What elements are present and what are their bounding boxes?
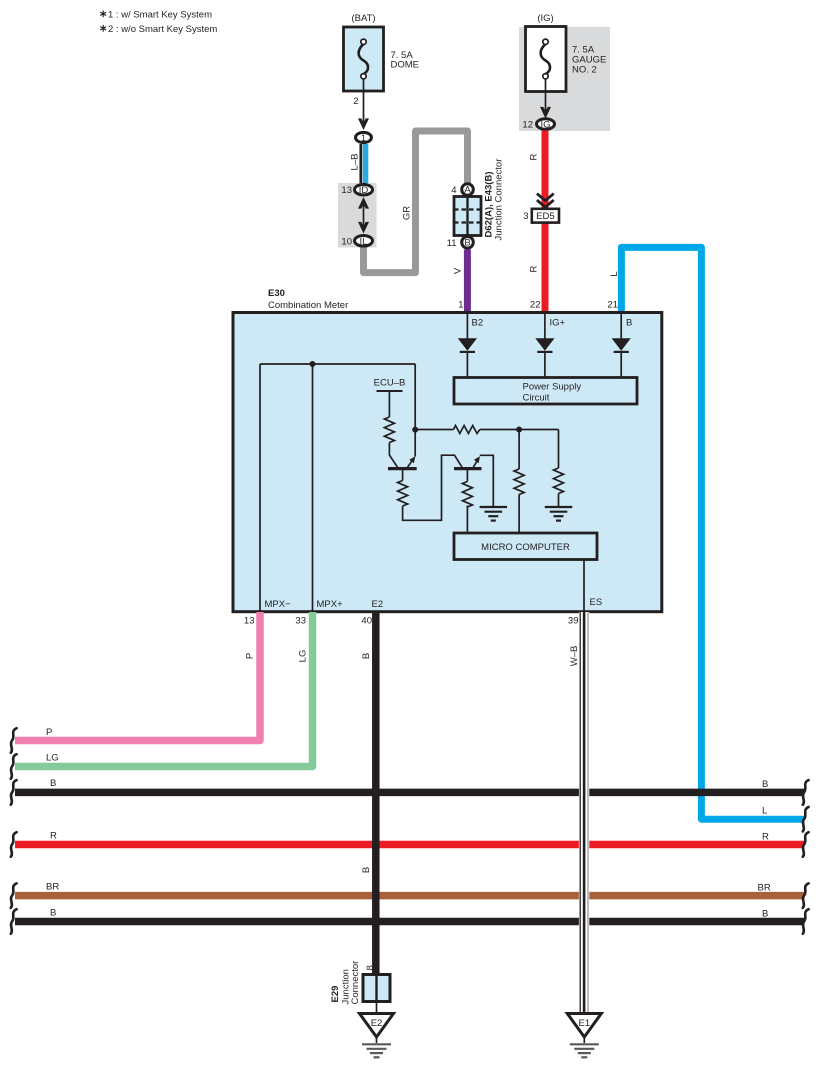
fuse GAUGE NO.2 (IG) background (519, 27, 610, 131)
svg-text:B2: B2 (472, 318, 484, 329)
wire BR horizontal (15, 882, 804, 896)
svg-text:(IG): (IG) (537, 13, 553, 24)
pin B lead (621, 314, 632, 339)
svg-text:E2: E2 (372, 599, 384, 610)
splice ED5 (523, 209, 559, 223)
wire R (red) to pin 22 (529, 131, 546, 315)
wire V (violet) to pin 1 (453, 250, 468, 315)
wire P (pink) (15, 612, 260, 741)
wire terminator right B2 (803, 909, 809, 934)
splice ED5 arrows (537, 194, 554, 208)
svg-text:21: 21 (607, 300, 618, 311)
wire terminator left R (11, 832, 17, 857)
svg-text:B: B (50, 908, 56, 919)
wire L-B (350, 144, 366, 184)
pin 13 ID (341, 184, 372, 196)
pin 12 IG (522, 119, 554, 131)
wire B vertical E2 (361, 612, 376, 975)
svg-text:3: 3 (523, 211, 528, 222)
svg-text:LG: LG (298, 650, 309, 663)
svg-text:BR: BR (758, 883, 771, 894)
connector block ID/IL background (338, 183, 377, 248)
svg-text:Connector: Connector (350, 961, 361, 1005)
pin IG+ lead (545, 314, 566, 339)
wire Q2 emitter to ground (480, 455, 494, 507)
junction connector E29 (330, 961, 390, 1005)
wire B horizontal 1 (15, 778, 804, 792)
resistor R6 horizontal (415, 426, 558, 434)
transistor Q1 (388, 456, 417, 480)
ground G2 (545, 507, 572, 521)
svg-text:R: R (762, 832, 769, 843)
svg-text:R: R (529, 265, 540, 272)
ECU-B supply (374, 378, 406, 418)
svg-text:L–B: L–B (350, 154, 361, 171)
resistor R3 (514, 430, 524, 534)
ground E2 (360, 1014, 394, 1058)
svg-text:ES: ES (590, 597, 603, 608)
svg-text:V: V (453, 267, 464, 274)
wire fuse IG to pin 12 (540, 79, 551, 119)
wire terminator right L (803, 807, 809, 832)
svg-text:39: 39 (568, 616, 579, 627)
svg-text:40: 40 (361, 616, 372, 627)
svg-text:R: R (50, 831, 57, 842)
wire terminator right R (803, 832, 809, 857)
wire MPX bus (260, 361, 418, 611)
svg-text:B: B (361, 867, 372, 873)
svg-text:L: L (609, 271, 620, 276)
svg-text:B: B (464, 237, 470, 248)
pin B2 lead (467, 314, 483, 339)
svg-text:E29: E29 (330, 986, 341, 1003)
wire terminator right BR (803, 883, 809, 908)
micro computer box (454, 533, 597, 560)
power supply circuit box (454, 378, 637, 405)
resistor R5 (462, 482, 472, 507)
wire terminator left BR (11, 883, 17, 908)
wire terminator left LG (11, 754, 17, 779)
svg-text:IG+: IG+ (550, 318, 566, 329)
svg-text:2: 2 (353, 96, 358, 107)
wire fuse DOME to connector 1 (353, 79, 369, 130)
svg-text:8: 8 (365, 965, 376, 970)
wire terminator left B1 (11, 780, 17, 805)
svg-text:E1: E1 (578, 1018, 590, 1029)
wire R2 to Q2 collector (403, 455, 462, 520)
svg-text:ECU–B: ECU–B (374, 378, 406, 389)
svg-text:R: R (529, 153, 540, 160)
svg-text:IL: IL (360, 236, 368, 247)
svg-text:B: B (762, 909, 768, 920)
junction connector D62(A),E43(B) pin B (447, 237, 474, 249)
diode D2 (535, 338, 554, 377)
double arrow ID-IL (358, 197, 369, 234)
wire terminator right B1 (803, 780, 809, 805)
svg-text:Junction Connector: Junction Connector (494, 159, 505, 241)
svg-text:LG: LG (46, 753, 59, 764)
E30 combination meter box (233, 288, 662, 612)
svg-text:IG: IG (540, 120, 550, 131)
resistor R4 (554, 430, 564, 508)
wire L (light blue) long run (607, 247, 804, 819)
svg-text:12: 12 (522, 120, 533, 131)
svg-text:L: L (762, 806, 767, 817)
svg-text:Power Supply: Power Supply (523, 382, 582, 393)
svg-text:B: B (50, 778, 56, 789)
svg-text:10: 10 (341, 236, 352, 247)
svg-text:GR: GR (402, 206, 413, 220)
wire LG (light green) (15, 612, 313, 767)
wire E29 to ground E2 (376, 1002, 378, 1014)
svg-text:33: 33 (295, 616, 306, 627)
resistor R2 (398, 481, 408, 506)
svg-text:11: 11 (447, 238, 457, 249)
svg-text:P: P (46, 727, 52, 738)
pin 10 IL (341, 236, 372, 248)
fuse GAUGE NO.2 (IG) (526, 13, 607, 92)
connector 1 (356, 132, 372, 144)
svg-text:MICRO COMPUTER: MICRO COMPUTER (481, 542, 570, 553)
wire ES lead (584, 560, 602, 612)
svg-text:1: 1 (361, 133, 366, 144)
fuse DOME (BAT) (344, 13, 420, 91)
svg-text:E2: E2 (371, 1018, 383, 1029)
svg-text:2 : w/o Smart Key System: 2 : w/o Smart Key System (108, 24, 217, 35)
svg-text:DOME: DOME (391, 60, 420, 71)
svg-text:1: 1 (458, 300, 463, 311)
wire R horizontal (15, 831, 804, 845)
svg-text:1 : w/ Smart Key System: 1 : w/ Smart Key System (108, 10, 212, 21)
wire terminator left P (11, 728, 17, 753)
ground E1 (567, 1014, 601, 1058)
svg-text:4: 4 (451, 185, 456, 196)
diode D3 (612, 338, 631, 377)
note legend (100, 10, 217, 36)
wire GR (364, 131, 468, 273)
wire W-B (569, 612, 589, 1014)
svg-text:MPX+: MPX+ (317, 599, 344, 610)
junction connector D62(A),E43(B) pin A (451, 184, 473, 196)
svg-text:ID: ID (359, 185, 369, 196)
resistor R1 (384, 417, 394, 442)
svg-text:B: B (626, 318, 632, 329)
svg-text:B: B (361, 653, 372, 659)
svg-text:P: P (245, 653, 256, 659)
bottom pin labels (265, 599, 384, 610)
svg-text:MPX−: MPX− (265, 599, 292, 610)
diode D1 (458, 338, 477, 377)
svg-text:13: 13 (341, 185, 352, 196)
ground G1 (480, 507, 507, 521)
svg-text:Combination Meter: Combination Meter (268, 300, 348, 311)
svg-text:A: A (464, 185, 471, 196)
wire terminator left B2 (11, 909, 17, 934)
svg-text:Circuit: Circuit (523, 393, 550, 404)
svg-text:13: 13 (244, 616, 255, 627)
transistor Q2 (454, 456, 482, 481)
svg-text:22: 22 (530, 300, 541, 311)
wire R5 to micro computer (466, 506, 468, 534)
junction connector D62(A),E43(B) body (454, 159, 505, 241)
pin numbers bottom (244, 616, 579, 627)
svg-text:ED5: ED5 (536, 211, 554, 222)
svg-text:BR: BR (46, 882, 59, 893)
svg-text:W–B: W–B (569, 646, 580, 667)
svg-text:NO. 2: NO. 2 (572, 65, 597, 76)
svg-text:E30: E30 (268, 288, 285, 299)
wire B horizontal 2 (15, 908, 804, 922)
svg-text:(BAT): (BAT) (351, 13, 375, 24)
svg-text:B: B (762, 779, 768, 790)
wire R1 to Q1 collector (389, 443, 397, 468)
